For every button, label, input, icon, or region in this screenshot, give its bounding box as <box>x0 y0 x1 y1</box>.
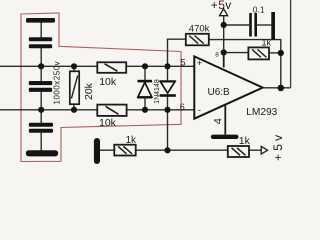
wire: input wire 2 (to pin 6) <box>0 109 195 111</box>
pin 8 stub <box>223 52 225 67</box>
svg-text:U6:B: U6:B <box>208 87 231 98</box>
wire to 0.1 cap <box>224 24 250 26</box>
svg-text:10k: 10k <box>99 76 117 88</box>
wire from diode node up to 470k <box>167 38 187 40</box>
resistor R 10k top <box>97 62 126 73</box>
bottom wire segments <box>100 149 115 151</box>
svg-text:1000x250v: 1000x250v <box>52 61 61 105</box>
capacitor C2 <box>29 37 52 41</box>
capacitor C3 (1000x250v) <box>29 81 52 85</box>
ground bar pin 4 <box>211 135 239 139</box>
resistor R 10k bottom <box>97 105 126 116</box>
trimmer R 20k stubs <box>73 66 75 71</box>
wire 470k to output corner <box>209 40 281 88</box>
resistor 20k <box>70 71 79 104</box>
red highlight outline polygon <box>21 13 181 162</box>
diode D2 (right, anti-parallel) <box>167 39 169 82</box>
op-amp U6:B triangle <box>194 56 262 118</box>
svg-text:1k: 1k <box>239 135 251 147</box>
svg-text:LM293: LM293 <box>246 107 277 118</box>
output wire <box>263 87 291 89</box>
svg-text:5: 5 <box>181 58 186 68</box>
power arrow up <box>220 9 228 16</box>
resistor R 1k (bottom right) <box>228 146 249 157</box>
svg-text:8: 8 <box>215 52 219 59</box>
svg-text:6: 6 <box>180 102 185 112</box>
junction dots <box>38 63 44 69</box>
svg-text:+: + <box>197 58 203 69</box>
+5v vertical wire <box>223 16 225 53</box>
svg-text:10k: 10k <box>99 117 117 129</box>
wire 1k to output vertical <box>269 52 281 54</box>
svg-text:20k: 20k <box>83 82 95 100</box>
diode D1 (left, 1N4148) <box>144 66 146 80</box>
svg-text:4: 4 <box>213 118 225 124</box>
capacitor 0.1 <box>249 13 252 37</box>
schematic border line right <box>290 0 292 88</box>
svg-text:1N4148: 1N4148 <box>154 79 161 104</box>
svg-text:470k: 470k <box>189 24 210 35</box>
ground bar bottom of cap chain <box>26 150 58 156</box>
+5v arrow bottom right <box>261 146 267 154</box>
resistor R 1k (top right) <box>248 47 269 59</box>
svg-text:0.1: 0.1 <box>253 4 265 14</box>
wire pin8 node to 1k <box>224 52 249 54</box>
pin 4 stub <box>224 105 226 135</box>
capacitor C1 top plate <box>26 18 55 23</box>
wire: input wire 1 (to pin 5) <box>0 65 195 67</box>
wire: capacitor chain vertical segments <box>40 22 42 38</box>
capacitor C4 <box>29 123 53 127</box>
svg-text:1k: 1k <box>126 135 138 146</box>
svg-text:-: - <box>198 105 201 116</box>
resistor R 470k <box>186 34 209 46</box>
svg-text:+5v: +5v <box>211 0 232 12</box>
svg-text:+5v: +5v <box>271 132 285 161</box>
electrode bar bottom left <box>94 138 100 164</box>
resistor R 1k (bottom middle) <box>114 145 135 156</box>
svg-text:1k: 1k <box>262 38 272 48</box>
